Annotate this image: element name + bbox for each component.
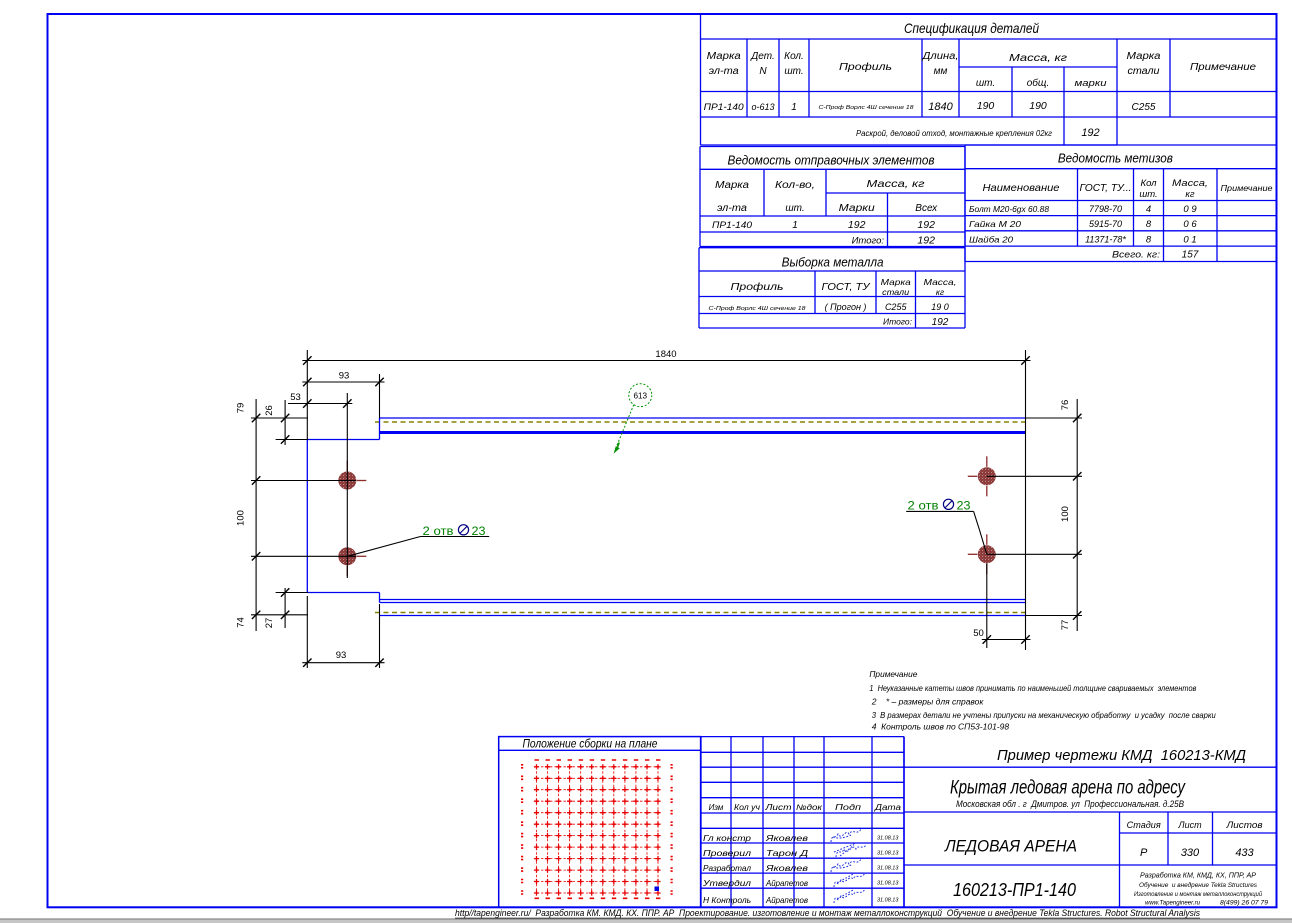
svg-text:Профиль: Профиль xyxy=(731,281,784,293)
dimension 26 (top notch) xyxy=(264,400,308,445)
svg-text:Длина,: Длина, xyxy=(921,51,958,62)
svg-text:Примечание: Примечание xyxy=(1190,61,1256,73)
svg-text:Профиль: Профиль xyxy=(839,61,892,73)
svg-text:Дет.: Дет. xyxy=(750,51,775,62)
notes Примечание xyxy=(869,669,1216,732)
svg-text:100: 100 xyxy=(236,510,247,526)
plate: bottom flange double line xyxy=(380,600,1026,603)
svg-text:Лист: Лист xyxy=(764,803,792,812)
svg-text:Листов: Листов xyxy=(1225,820,1262,830)
svg-text:613: 613 xyxy=(633,392,647,401)
svg-text:4: 4 xyxy=(1146,204,1151,215)
selected assembly mark (blue) xyxy=(655,887,660,892)
svg-text:Спецификация деталей: Спецификация деталей xyxy=(904,20,1039,36)
svg-text:5915-70: 5915-70 xyxy=(1089,219,1122,229)
svg-text:Примечание: Примечание xyxy=(1221,184,1274,193)
svg-text:ГОСТ, ТУ: ГОСТ, ТУ xyxy=(822,282,872,293)
svg-text:31.08.13: 31.08.13 xyxy=(877,898,899,904)
svg-text:стали: стали xyxy=(882,287,909,297)
svg-text:Изготовление и монтаж металлок: Изготовление и монтаж металлоконструкций xyxy=(1134,890,1262,898)
svg-text:31.08.13: 31.08.13 xyxy=(877,836,899,842)
svg-text:№док: №док xyxy=(796,803,823,812)
svg-text:160213-ПР1-140: 160213-ПР1-140 xyxy=(953,880,1076,900)
svg-text:27: 27 xyxy=(264,618,275,629)
plate: top step edge xyxy=(379,418,381,440)
svg-text:Утвердил: Утвердил xyxy=(702,878,751,888)
svg-text:190: 190 xyxy=(977,100,995,112)
svg-text:1840: 1840 xyxy=(928,101,953,113)
table: Спецификация деталей text xyxy=(704,20,1256,139)
dimensions 79 / 100 / 74 (left vertical chain) xyxy=(236,399,357,631)
svg-text:Положение сборки на плане: Положение сборки на плане xyxy=(523,738,658,750)
svg-text:Крытая ледовая арена по адресу: Крытая ледовая арена по адресу xyxy=(950,778,1186,799)
plate: top centerline (dashed) xyxy=(375,421,1026,423)
svg-text:53: 53 xyxy=(290,392,301,403)
hole crosshair red ticks left holes xyxy=(347,461,366,577)
table: Ведомость метизов text xyxy=(969,151,1273,261)
signature rows text xyxy=(702,833,900,905)
svg-text:Подп: Подп xyxy=(835,803,862,812)
svg-text:Разработка КМ, КМД, КХ, ППР, А: Разработка КМ, КМД, КХ, ППР, АР xyxy=(1140,871,1256,880)
svg-text:Кол-во,: Кол-во, xyxy=(775,180,815,191)
svg-text:о-613: о-613 xyxy=(751,102,774,112)
svg-text:Примечание: Примечание xyxy=(869,669,917,679)
svg-text:мм: мм xyxy=(934,66,948,77)
svg-text:ЛЕДОВАЯ АРЕНА: ЛЕДОВАЯ АРЕНА xyxy=(944,837,1077,856)
svg-text:( Прогон ): ( Прогон ) xyxy=(825,302,867,312)
svg-text:Кол.: Кол. xyxy=(784,51,804,62)
svg-text:8: 8 xyxy=(1146,235,1152,246)
svg-text:кг: кг xyxy=(1185,189,1194,200)
label 2 отв ∅23 (right) xyxy=(906,499,987,554)
svg-text:11371-78*: 11371-78* xyxy=(1085,235,1126,245)
svg-text:Масса, кг: Масса, кг xyxy=(1009,52,1067,64)
svg-text:79: 79 xyxy=(236,403,247,414)
balloon mark 613 xyxy=(614,384,652,454)
svg-text:Марка: Марка xyxy=(707,51,741,62)
table: Спецификация деталей grid xyxy=(701,14,1277,145)
svg-text:Марка: Марка xyxy=(881,277,911,287)
svg-text:192: 192 xyxy=(1081,127,1099,139)
svg-text:С255: С255 xyxy=(1132,102,1156,113)
svg-text:433: 433 xyxy=(1235,847,1254,859)
svg-text:Марка: Марка xyxy=(715,180,749,191)
svg-text:Разработал: Разработал xyxy=(703,863,751,873)
svg-text:эл-та: эл-та xyxy=(717,203,747,214)
svg-text:100: 100 xyxy=(1060,506,1071,522)
svg-text:23: 23 xyxy=(472,526,486,538)
svg-text:марки: марки xyxy=(1075,78,1107,88)
svg-text:Тарон Д: Тарон Д xyxy=(766,848,808,858)
svg-text:8(499) 26 07 79: 8(499) 26 07 79 xyxy=(1220,900,1268,907)
svg-text:Всего. кг:: Всего. кг: xyxy=(1112,250,1160,261)
hole crosshair red ticks right holes xyxy=(968,456,987,574)
svg-text:157: 157 xyxy=(1182,250,1199,261)
svg-text:общ.: общ. xyxy=(1027,77,1049,89)
svg-text:Стадия: Стадия xyxy=(1127,820,1161,830)
plate: bottom step edge xyxy=(379,593,381,603)
svg-text:0 6: 0 6 xyxy=(1183,219,1197,230)
svg-text:76: 76 xyxy=(1060,400,1071,411)
svg-text:стали: стали xyxy=(1128,66,1160,77)
plate: left tab top edge xyxy=(307,439,379,441)
svg-text:Марки: Марки xyxy=(839,203,876,214)
svg-text:кг: кг xyxy=(936,287,944,297)
bottom info line xyxy=(455,908,1200,918)
svg-text:шт.: шт. xyxy=(784,66,803,77)
hole d23 top-right xyxy=(978,467,996,485)
svg-text:192: 192 xyxy=(917,219,935,231)
svg-text:23: 23 xyxy=(957,500,971,512)
svg-text:Ведомость метизов: Ведомость метизов xyxy=(1058,151,1173,166)
svg-text:1840: 1840 xyxy=(655,349,676,360)
svg-text:Обучение и внедрение Tekla St: Обучение и внедрение Tekla Structures xyxy=(1139,881,1258,889)
svg-text:Марка: Марка xyxy=(1127,51,1161,62)
svg-text:192: 192 xyxy=(848,219,866,231)
dimension 50 (bottom right) xyxy=(973,563,1030,648)
svg-text:4 Контроль швов по СП53-101-9: 4 Контроль швов по СП53-101-98 xyxy=(872,722,1010,732)
svg-text:Гл констр: Гл констр xyxy=(703,833,751,843)
hole d23 bottom-left xyxy=(338,547,356,565)
svg-text:Выборка металла: Выборка металла xyxy=(782,256,884,270)
plate: left tab bottom edge xyxy=(307,592,379,594)
svg-text:С255: С255 xyxy=(885,302,908,312)
svg-text:Всех: Всех xyxy=(915,203,938,214)
svg-text:31.08.13: 31.08.13 xyxy=(877,866,899,872)
svg-text:С-Проф Ворлс 4Ш сечение 18: С-Проф Ворлс 4Ш сечение 18 xyxy=(819,105,915,111)
svg-text:1: 1 xyxy=(791,102,797,113)
svg-text:Гайка М 20: Гайка М 20 xyxy=(969,219,1021,229)
svg-text:2 отв: 2 отв xyxy=(423,526,454,538)
svg-text:ГОСТ, ТУ...: ГОСТ, ТУ... xyxy=(1080,183,1132,194)
svg-text:Яковлев: Яковлев xyxy=(765,833,809,843)
table: Ведомость отправочных элементов text xyxy=(712,154,938,247)
dimension 53 (to hole axis) xyxy=(288,392,352,578)
dimension 93 (top left) xyxy=(302,371,384,419)
plate ПР1-140 outline: top edge xyxy=(380,417,1026,419)
red plan grid xyxy=(521,760,673,898)
svg-text:Московская обл . г Дмитров. у: Московская обл . г Дмитров. ул Профессио… xyxy=(956,799,1184,809)
svg-text:1 Неуказанные катеты швов при: 1 Неуказанные катеты швов принимать по н… xyxy=(869,683,1196,693)
svg-text:Итого:: Итого: xyxy=(852,236,885,247)
plate: left end edge xyxy=(306,440,308,593)
svg-text:93: 93 xyxy=(336,650,347,661)
plate: bottom centerline (dashed) xyxy=(375,612,1026,614)
svg-text:190: 190 xyxy=(1029,100,1047,112)
dimensions 76 / 100 / 77 (right vertical chain) xyxy=(987,399,1082,631)
svg-text:0 9: 0 9 xyxy=(1183,204,1197,215)
svg-text:50: 50 xyxy=(973,628,984,639)
svg-text:Лист: Лист xyxy=(1177,820,1202,830)
table: Ведомость отправочных элементов grid xyxy=(700,147,965,247)
svg-text:Кол: Кол xyxy=(1140,178,1157,189)
svg-text:шт.: шт. xyxy=(785,203,804,214)
table: Выборка металла grid xyxy=(699,248,965,328)
box Положение сборки на плане xyxy=(499,737,701,908)
revision table header text xyxy=(709,803,902,812)
svg-text:31.08.13: 31.08.13 xyxy=(877,881,899,887)
svg-text:эл-та: эл-та xyxy=(709,66,739,77)
plate: top flange thick inner line xyxy=(380,431,1026,434)
svg-text:Р: Р xyxy=(1140,847,1148,859)
svg-text:Масса, кг: Масса, кг xyxy=(867,178,925,190)
plate: bottom edge xyxy=(380,615,1026,617)
dimension 93 (bottom left) xyxy=(302,596,384,668)
signatures (blue scribbles) xyxy=(831,829,866,903)
svg-text:Раскрой, деловой отход, монтаж: Раскрой, деловой отход, монтажные крепле… xyxy=(856,129,1052,138)
svg-text:Масса,: Масса, xyxy=(1172,178,1208,189)
svg-text:Н Контроль: Н Контроль xyxy=(703,895,751,905)
svg-text:http//tapengineer.ru/ Разрабо: http//tapengineer.ru/ Разработка КМ. КМД… xyxy=(455,908,1200,918)
table: Ведомость метизов grid xyxy=(965,145,1277,262)
dimension 27 (bottom notch) xyxy=(264,588,308,628)
svg-text:ПР1-140: ПР1-140 xyxy=(712,220,753,231)
svg-text:Шайба 20: Шайба 20 xyxy=(969,235,1013,245)
svg-text:Изм: Изм xyxy=(709,803,724,812)
svg-text:Айрапетов: Айрапетов xyxy=(765,878,808,888)
svg-text:Ведомость отправочных элементо: Ведомость отправочных элементов xyxy=(728,154,935,168)
svg-text:26: 26 xyxy=(264,405,275,416)
title block text xyxy=(944,748,1268,907)
svg-text:С-Проф Ворлс 4Ш сечение 18: С-Проф Ворлс 4Ш сечение 18 xyxy=(709,306,807,312)
svg-text:93: 93 xyxy=(339,371,350,382)
hole d23 top-left xyxy=(338,472,356,490)
svg-text:Пример чертежи КМД 160213-КМД: Пример чертежи КМД 160213-КМД xyxy=(997,748,1246,764)
svg-text:192: 192 xyxy=(932,317,949,328)
label 2 отв ∅23 (left) xyxy=(347,525,489,557)
svg-text:3 В размерах детали не учтены: 3 В размерах детали не учтены припуски н… xyxy=(872,710,1216,720)
title block grid xyxy=(904,737,1277,908)
svg-text:1: 1 xyxy=(792,220,798,231)
svg-text:330: 330 xyxy=(1181,847,1200,859)
svg-text:0 1: 0 1 xyxy=(1183,235,1196,246)
svg-text:8: 8 xyxy=(1146,219,1152,230)
svg-text:шт.: шт. xyxy=(1139,189,1157,200)
svg-text:Болт М20-6gх 60.88: Болт М20-6gх 60.88 xyxy=(969,205,1050,214)
table: Выборка металла text xyxy=(709,256,957,329)
svg-text:ПР1-140: ПР1-140 xyxy=(704,102,745,113)
hole d23 bottom-right xyxy=(978,545,996,563)
svg-text:31.08.13: 31.08.13 xyxy=(877,851,899,857)
svg-text:Дата: Дата xyxy=(874,803,902,812)
svg-text:7798-70: 7798-70 xyxy=(1089,204,1122,214)
svg-text:шт.: шт. xyxy=(976,78,995,89)
revision and signature table grid xyxy=(701,737,904,908)
svg-text:2 * – размеры для справок: 2 * – размеры для справок xyxy=(871,697,985,707)
svg-text:2 отв: 2 отв xyxy=(908,500,939,512)
svg-text:N: N xyxy=(759,66,767,77)
svg-text:19 0: 19 0 xyxy=(931,302,949,312)
svg-text:Масса,: Масса, xyxy=(924,277,957,287)
svg-text:192: 192 xyxy=(917,235,935,247)
dimension 1840 (overall length) xyxy=(302,349,1030,650)
svg-text:Наименование: Наименование xyxy=(983,182,1060,194)
svg-text:Яковлев: Яковлев xyxy=(765,863,809,873)
svg-text:77: 77 xyxy=(1060,620,1071,631)
svg-text:Кол уч: Кол уч xyxy=(734,803,760,812)
svg-text:Проверил: Проверил xyxy=(703,848,751,858)
svg-text:www.Tapengineer.ru: www.Tapengineer.ru xyxy=(1145,900,1200,907)
bottom gray bar xyxy=(0,919,1292,923)
svg-text:Итого:: Итого: xyxy=(883,317,913,327)
svg-text:74: 74 xyxy=(236,617,247,628)
svg-text:Айрапетов: Айрапетов xyxy=(765,895,808,905)
